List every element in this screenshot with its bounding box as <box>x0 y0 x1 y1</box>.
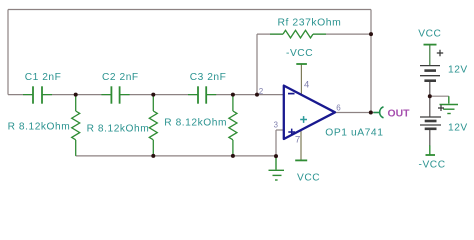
junction node R3/C3 <box>231 93 235 97</box>
wire battery1 bottom to junction <box>429 81 431 117</box>
svg-text:C2 2nF: C2 2nF <box>102 72 139 83</box>
wire ladder segment to C1 <box>8 94 33 96</box>
svg-text:3: 3 <box>274 121 278 130</box>
svg-text:VCC: VCC <box>418 29 441 40</box>
wire bottom ground rail <box>76 155 276 157</box>
junction node battery mid <box>428 94 432 98</box>
wire C2 to C3 <box>120 94 198 96</box>
resistor R1 <box>72 95 80 156</box>
wire left vertical down to C1 <box>7 10 9 95</box>
junction node rail R3 <box>231 154 235 158</box>
power -VCC terminal above op-amp <box>296 63 307 65</box>
wire Rf left vertical drop to inverting node <box>256 34 258 95</box>
wire Rf left lead <box>257 33 283 35</box>
wire Rf right lead <box>313 33 371 35</box>
junction node Rf right <box>369 32 373 36</box>
battery B2 plates <box>420 117 441 129</box>
svg-text:R 8.12kOhm: R 8.12kOhm <box>87 123 150 134</box>
svg-text:4: 4 <box>304 80 309 91</box>
wire pin 3 drop to ground rail <box>275 130 277 156</box>
svg-text:2: 2 <box>259 87 264 96</box>
ground (supply mid-point) <box>440 96 459 113</box>
svg-text:-VCC: -VCC <box>419 160 446 171</box>
battery B1 plus sign <box>437 50 443 56</box>
wire right feedback vertical <box>370 10 372 113</box>
resistor R3 <box>229 95 237 156</box>
op-amp U1 triangle <box>284 86 335 139</box>
capacitor C2 <box>101 86 129 103</box>
resistor Rf (feedback) <box>270 30 326 38</box>
resistor R2 <box>149 95 157 156</box>
wire battery2 bottom stem <box>429 129 431 146</box>
wire top feedback from output to ladder input <box>8 9 371 11</box>
wire op-amp pin7 stem to VCC bar <box>300 130 302 161</box>
svg-text:VCC: VCC <box>297 172 320 183</box>
junction node R2/C2 <box>151 93 155 97</box>
battery B2 -VCC terminal <box>426 154 436 156</box>
svg-text:6: 6 <box>336 104 341 113</box>
wire op-amp output to port <box>335 112 374 114</box>
op-amp minus mark pin2 <box>288 93 295 95</box>
junction node rail ground <box>274 154 278 158</box>
junction node inverting input <box>255 93 259 97</box>
svg-text:7: 7 <box>295 135 300 146</box>
op-amp plus mark center (offset) <box>300 116 307 123</box>
svg-text:R 8.12kOhm: R 8.12kOhm <box>164 118 227 129</box>
ground (signal ground, below rail) <box>269 156 285 180</box>
svg-text:OUT: OUT <box>388 108 411 119</box>
junction node rail R2 <box>151 154 155 158</box>
svg-text:R 8.12kOhm: R 8.12kOhm <box>8 121 71 132</box>
output port OUT <box>374 107 384 118</box>
wire C3 to op-amp pin 2 <box>206 94 284 96</box>
junction node output <box>369 111 373 115</box>
wire C1 to C2 <box>42 94 111 96</box>
op-amp plus mark pin3 <box>288 129 295 136</box>
capacitor C3 <box>188 86 216 103</box>
svg-text:C3 2nF: C3 2nF <box>190 72 227 83</box>
battery B1 top stem <box>429 45 431 66</box>
battery B1 plates <box>420 66 440 81</box>
junction node R1/C1 <box>74 93 78 97</box>
wire battery junction to ground <box>430 95 449 97</box>
svg-text:C1 2nF: C1 2nF <box>25 72 62 83</box>
capacitor C1 <box>23 86 52 103</box>
power VCC terminal below op-amp <box>295 159 307 161</box>
svg-text:12V: 12V <box>448 64 468 75</box>
svg-text:12V: 12V <box>448 122 468 133</box>
battery B2 plus sign <box>438 105 444 111</box>
wire op-amp pin4 stem from -VCC bar <box>300 64 302 95</box>
wire pin 3 horizontal <box>276 129 284 131</box>
svg-text:-VCC: -VCC <box>286 48 313 59</box>
battery B2 bottom green stem <box>429 145 431 155</box>
svg-text:OP1 uA741: OP1 uA741 <box>325 128 383 139</box>
battery B1 VCC terminal <box>424 44 437 46</box>
svg-text:Rf 237kOhm: Rf 237kOhm <box>278 17 342 28</box>
